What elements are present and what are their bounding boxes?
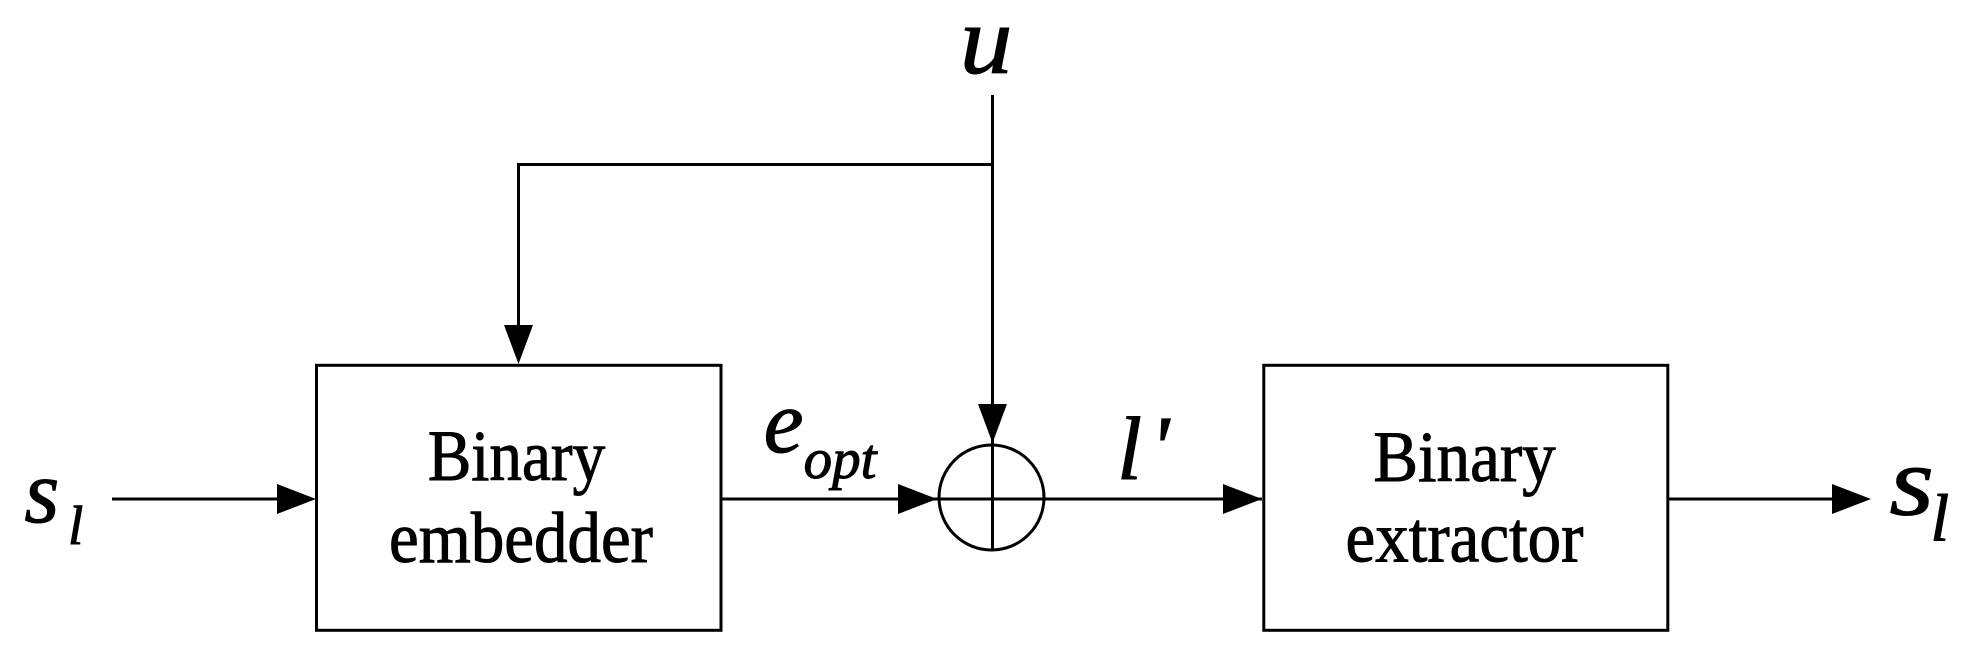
svg-text:s: s [24, 443, 59, 542]
svg-text:l: l [1117, 400, 1142, 499]
arrowhead into extractor left [1223, 484, 1262, 514]
block Binary extractor [1264, 365, 1668, 630]
adder circle [939, 445, 1044, 550]
svg-text:l: l [1931, 482, 1950, 556]
svg-text:Binary: Binary [1373, 418, 1555, 498]
svg-text:extractor: extractor [1346, 498, 1584, 578]
svg-text:Binary: Binary [428, 416, 606, 496]
svg-text:u: u [960, 0, 1013, 94]
wire feedback vertical [517, 163, 520, 330]
wire s_l to embedder [112, 498, 290, 501]
svg-text:embedder: embedder [389, 499, 653, 579]
block Binary embedder [317, 365, 722, 630]
arrowhead into embedder top [504, 325, 533, 364]
wire embedder to adder [721, 498, 1262, 501]
arrowhead into embedder left [277, 484, 316, 514]
wire u vertical [991, 95, 994, 551]
arrowhead at output [1832, 484, 1871, 514]
wire extractor to s_l output [1668, 498, 1838, 501]
arrowhead into adder left [898, 484, 937, 514]
arrowhead into adder top [978, 404, 1007, 443]
wire feedback horizontal [517, 163, 993, 166]
svg-text:l: l [68, 495, 83, 556]
svg-text:opt: opt [804, 428, 878, 491]
svg-text:': ' [1150, 399, 1171, 498]
svg-text:s: s [1889, 427, 1934, 537]
svg-text:e: e [764, 373, 804, 472]
